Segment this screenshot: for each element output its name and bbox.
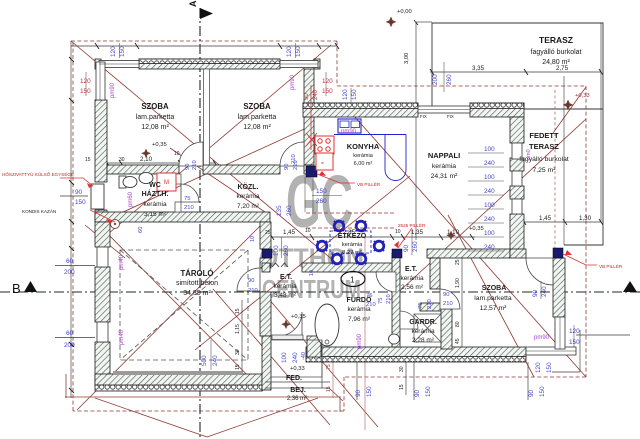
- svg-text:100: 100: [484, 202, 495, 209]
- svg-text:10: 10: [395, 229, 401, 235]
- svg-text:100: 100: [484, 230, 495, 237]
- top-right corner block: [470, 103, 524, 117]
- svg-text:FIX: FIX: [447, 114, 454, 119]
- svg-text:15: 15: [235, 308, 241, 314]
- svg-text:60: 60: [138, 227, 144, 233]
- svg-text:+0,35: +0,35: [152, 142, 167, 148]
- svg-text:kerámia: kerámia: [342, 242, 363, 248]
- svg-text:2525 PILLÉR: 2525 PILLÉR: [398, 222, 426, 228]
- svg-text:lam.parketta: lam.parketta: [136, 114, 175, 121]
- svg-text:90: 90: [75, 189, 83, 196]
- svg-text:12,57 m²: 12,57 m²: [480, 305, 508, 312]
- garage gable: [65, 396, 338, 398]
- svg-text:KÖZL.: KÖZL.: [238, 182, 259, 191]
- right wing bottom wall: [306, 347, 526, 357]
- roof outline dashed: [71, 41, 586, 411]
- svg-text:3,15 m²: 3,15 m²: [144, 211, 167, 218]
- tarolo-ET door: [237, 268, 260, 291]
- svg-text:FEDETT: FEDETT: [529, 131, 559, 140]
- walls: hatched: [95, 59, 565, 391]
- svg-text:SZOBA: SZOBA: [141, 102, 169, 111]
- washing machine red: [157, 173, 176, 191]
- svg-text:150: 150: [119, 46, 126, 57]
- svg-text:pm90: pm90: [357, 333, 363, 349]
- svg-text:90: 90: [284, 164, 290, 170]
- svg-text:7,20 m²: 7,20 m²: [237, 203, 260, 210]
- svg-text:15: 15: [85, 157, 91, 163]
- garage X: [97, 223, 263, 391]
- svg-text:150: 150: [322, 88, 333, 95]
- E.T. top wall: [262, 263, 270, 272]
- garage car cross dashed: [120, 250, 248, 360]
- svg-text:90: 90: [414, 389, 421, 397]
- svg-text:240: 240: [541, 286, 548, 297]
- svg-text:100: 100: [273, 245, 280, 256]
- FED.BEJ left wall: [262, 336, 271, 390]
- bedroom3 top wall: [510, 249, 526, 258]
- kitchen sink unit: [338, 119, 361, 133]
- svg-text:E.T.: E.T.: [280, 274, 292, 281]
- svg-text:E.T.: E.T.: [405, 266, 417, 273]
- svg-text:=: =: [321, 161, 324, 167]
- svg-text:lam.parketta: lam.parketta: [238, 114, 277, 121]
- svg-text:kerámia: kerámia: [143, 201, 167, 208]
- kitchen counter + peninsula: [334, 135, 406, 181]
- star symbols: [142, 17, 573, 329]
- svg-text:pm60: pm60: [128, 191, 134, 207]
- bathroom left corner wall: [307, 336, 321, 357]
- garage left wall: [95, 222, 110, 247]
- svg-text:KONYHA: KONYHA: [347, 142, 380, 151]
- nappali bottom wall: [427, 249, 510, 258]
- left wall bedroom: [95, 100, 107, 182]
- svg-text:150: 150: [546, 362, 553, 373]
- svg-text:simított beton: simított beton: [176, 280, 218, 287]
- svg-text:FED.: FED.: [286, 375, 302, 382]
- misc details: [0, 438, 1, 439]
- WC bottom / KOZL bottom wall: [95, 212, 270, 222]
- svg-text:90: 90: [304, 93, 310, 100]
- svg-text:HŐSZIVATTYÚ KÜLSŐ EGYSÉGE: HŐSZIVATTYÚ KÜLSŐ EGYSÉGE: [2, 171, 74, 177]
- svg-text:30: 30: [235, 349, 241, 355]
- bathtub: [315, 304, 339, 346]
- svg-text:210: 210: [366, 302, 376, 308]
- svg-text:FIX: FIX: [420, 114, 427, 119]
- svg-text:SZOBA: SZOBA: [243, 102, 271, 111]
- svg-text:+0,35: +0,35: [291, 314, 306, 320]
- wc toilet: [119, 173, 153, 189]
- svg-text:150: 150: [316, 188, 327, 195]
- svg-text:-40: -40: [301, 352, 307, 360]
- svg-text:200: 200: [64, 269, 75, 276]
- ET2 door from szoba3: [440, 289, 460, 309]
- right wing diagonals: [390, 119, 586, 300]
- svg-text:VB PILLÉR: VB PILLÉR: [357, 181, 381, 187]
- svg-text:260: 260: [283, 245, 290, 256]
- svg-text:120: 120: [322, 78, 333, 85]
- svg-text:pm40: pm40: [119, 254, 125, 270]
- svg-text:260: 260: [446, 74, 453, 85]
- bedroom3 right wall: [553, 258, 565, 317]
- heat pump unit outside: [91, 184, 104, 209]
- bathroom right wall: [392, 253, 400, 347]
- garage right wall: [260, 222, 271, 249]
- svg-text:kerámia: kerámia: [236, 193, 260, 200]
- svg-text:12,08 m²: 12,08 m²: [141, 124, 169, 131]
- red dims near bed2 wall: [304, 89, 319, 100]
- svg-text:150: 150: [425, 386, 432, 397]
- svg-text:210: 210: [427, 299, 433, 309]
- gardr door: [400, 311, 418, 329]
- svg-text:kerámia: kerámia: [432, 163, 456, 170]
- svg-text:240: 240: [484, 216, 495, 223]
- WC door: [181, 184, 199, 202]
- svg-text:2,85: 2,85: [343, 229, 356, 236]
- svg-text:GARDR.: GARDR.: [409, 319, 437, 326]
- svg-text:90: 90: [248, 278, 254, 284]
- svg-text:120: 120: [110, 46, 117, 57]
- svg-text:210: 210: [386, 294, 392, 304]
- svg-text:1,30: 1,30: [579, 215, 592, 222]
- svg-text:150: 150: [80, 88, 91, 95]
- svg-text:75: 75: [326, 364, 332, 370]
- dim ticks: [105, 20, 603, 240]
- svg-text:200: 200: [432, 74, 439, 85]
- furdo door: [376, 272, 396, 292]
- svg-text:210: 210: [291, 154, 297, 164]
- svg-text:B: B: [12, 281, 21, 296]
- svg-text:VB PILLÉR: VB PILLÉR: [599, 263, 623, 269]
- svg-text:90: 90: [403, 244, 410, 252]
- entry diagonals: [213, 289, 330, 425]
- svg-text:TERASZ: TERASZ: [529, 142, 559, 151]
- blue dimension texts: [64, 46, 580, 397]
- svg-text:WC: WC: [149, 182, 161, 189]
- gardrobe X: [414, 314, 441, 342]
- hip/valley diagonals bedroom wing: [71, 41, 340, 266]
- black dimension texts: [85, 9, 592, 392]
- svg-text:+0,35: +0,35: [469, 226, 484, 232]
- misc details: [305, 177, 313, 212]
- svg-text:60: 60: [66, 258, 74, 265]
- svg-text:pm0: pm0: [526, 149, 532, 160]
- svg-text:90: 90: [528, 389, 535, 397]
- szoba3 terrace door: [526, 258, 553, 285]
- svg-text:120: 120: [286, 46, 293, 57]
- garage door band: [113, 371, 243, 375]
- svg-text:260: 260: [412, 241, 419, 252]
- svg-text:2,75: 2,75: [556, 65, 569, 72]
- svg-text:75: 75: [378, 298, 384, 304]
- roof plan red linework: [65, 41, 586, 437]
- svg-text:25: 25: [265, 230, 271, 236]
- svg-text:TERASZ: TERASZ: [539, 35, 573, 45]
- svg-text:240: 240: [292, 352, 299, 363]
- lamp ellipse with 1: [341, 272, 365, 287]
- svg-text:120: 120: [569, 328, 580, 335]
- svg-text:pm90: pm90: [110, 82, 116, 98]
- svg-text:kerámia: kerámia: [353, 153, 374, 159]
- nappali right wall segments: [510, 158, 524, 171]
- svg-text:30: 30: [399, 366, 405, 372]
- svg-text:M: M: [164, 180, 169, 186]
- svg-text:120: 120: [342, 89, 349, 100]
- svg-text:7,25 m²: 7,25 m²: [532, 167, 556, 174]
- bedrooms bottom wall: [107, 165, 179, 174]
- door arcs: [179, 142, 553, 336]
- svg-text:8,27 m²: 8,27 m²: [342, 250, 362, 256]
- svg-text:240: 240: [484, 160, 495, 167]
- svg-text:260: 260: [286, 205, 293, 216]
- corners of top wall: [95, 59, 101, 69]
- room labels: [136, 35, 582, 402]
- svg-text:240: 240: [484, 244, 495, 251]
- svg-text:pm90: pm90: [534, 335, 550, 341]
- entry door arc: [278, 312, 302, 336]
- svg-text:12,08 m²: 12,08 m²: [243, 124, 271, 131]
- entry threshold + porch steps: [265, 335, 330, 388]
- svg-text:SZOBA: SZOBA: [482, 285, 507, 292]
- svg-text:2,28 m²: 2,28 m²: [412, 337, 435, 344]
- watermark: [259, 160, 364, 304]
- svg-text:90: 90: [443, 292, 449, 298]
- bed2 door: [280, 142, 304, 166]
- GARDR right wall: [441, 309, 452, 349]
- dining table + chairs: [317, 221, 384, 264]
- bath sink: [389, 334, 400, 344]
- svg-text:75: 75: [366, 293, 372, 299]
- svg-text:210: 210: [192, 160, 198, 170]
- windows (thin triple lines): [96, 61, 576, 356]
- svg-text:10: 10: [250, 236, 256, 242]
- kondis kazan circle: [111, 220, 120, 229]
- bedroom wing top wall: [139, 59, 280, 69]
- bedroom divider: [204, 69, 210, 166]
- kitchen top wall: [303, 103, 418, 117]
- level markers: [152, 93, 590, 372]
- svg-text:150: 150: [539, 386, 546, 397]
- bed1 door: [179, 142, 203, 166]
- garage bottom wall: [95, 374, 262, 386]
- svg-text:3,48 m²: 3,48 m²: [274, 292, 297, 299]
- svg-text:+0,33: +0,33: [575, 93, 590, 99]
- WC right divider: [175, 174, 181, 184]
- svg-text:150: 150: [569, 339, 580, 346]
- svg-text:24,31 m²: 24,31 m²: [431, 173, 459, 180]
- svg-text:30: 30: [119, 157, 125, 163]
- svg-text:2,36 m²: 2,36 m²: [287, 396, 307, 402]
- svg-text:10: 10: [305, 228, 311, 234]
- svg-text:pm40: pm40: [119, 329, 125, 345]
- ET2/GARDR divider: [420, 303, 441, 311]
- svg-text:100: 100: [484, 174, 495, 181]
- svg-text:TÁROLÓ: TÁROLÓ: [181, 269, 214, 278]
- svg-text:240: 240: [484, 188, 495, 195]
- magenta pm labels: [110, 74, 550, 349]
- svg-text:A: A: [188, 0, 198, 7]
- kitchen stove: [315, 136, 334, 170]
- svg-text:10: 10: [309, 270, 315, 276]
- svg-text:+0,00: +0,00: [397, 9, 412, 15]
- svg-text:210: 210: [248, 288, 258, 294]
- svg-text:210: 210: [184, 205, 194, 211]
- svg-text:1: 1: [350, 276, 355, 285]
- svg-text:260: 260: [316, 198, 327, 205]
- svg-text:1,35: 1,35: [411, 229, 424, 236]
- svg-text:2,56 m²: 2,56 m²: [401, 284, 424, 291]
- svg-text:25: 25: [455, 259, 461, 265]
- svg-text:BEJ.: BEJ.: [290, 387, 306, 394]
- svg-text:HÁZT.H.: HÁZT.H.: [142, 189, 169, 198]
- svg-text:kerámia: kerámia: [273, 283, 297, 290]
- svg-text:75: 75: [418, 303, 424, 309]
- svg-text:KONDIS KAZÁN: KONDIS KAZÁN: [22, 208, 56, 214]
- svg-text:1,90: 1,90: [455, 278, 461, 288]
- etkezo dashed opening: [306, 213, 396, 228]
- svg-text:1,45: 1,45: [283, 229, 296, 236]
- svg-text:15: 15: [235, 364, 241, 370]
- svg-text:120: 120: [80, 78, 91, 85]
- svg-text:3,35: 3,35: [472, 65, 485, 72]
- svg-text:3,00: 3,00: [404, 53, 410, 64]
- svg-text:90: 90: [185, 164, 191, 170]
- bed2 right wall / kitchen left: [304, 69, 314, 165]
- svg-text:kerámia: kerámia: [411, 328, 435, 335]
- svg-text:100: 100: [484, 146, 495, 153]
- svg-text:NAPPALI: NAPPALI: [428, 151, 460, 160]
- svg-text:150: 150: [295, 46, 302, 57]
- svg-text:90: 90: [532, 289, 539, 297]
- svg-text:210: 210: [443, 301, 453, 307]
- svg-text:1,45: 1,45: [539, 215, 552, 222]
- svg-text:90: 90: [355, 389, 362, 397]
- svg-text:80: 80: [455, 321, 461, 327]
- svg-text:150: 150: [75, 199, 86, 206]
- svg-text:6,00 m²: 6,00 m²: [354, 161, 373, 167]
- svg-text:45: 45: [455, 338, 461, 344]
- svg-text:fagyálló burkolat: fagyálló burkolat: [531, 49, 582, 56]
- svg-text:34,35 m²: 34,35 m²: [183, 290, 211, 297]
- svg-text:75: 75: [184, 196, 190, 202]
- svg-text:500: 500: [201, 355, 208, 366]
- svg-text:240: 240: [212, 355, 219, 366]
- svg-text:150: 150: [351, 89, 358, 100]
- svg-text:+0,33: +0,33: [290, 366, 305, 372]
- terrace outline: [432, 23, 603, 245]
- svg-text:10: 10: [174, 151, 180, 157]
- svg-text:15: 15: [326, 386, 332, 392]
- ET2 right wall: [430, 258, 440, 289]
- svg-text:135: 135: [276, 205, 283, 216]
- svg-text:150: 150: [366, 386, 373, 397]
- svg-text:1,15: 1,15: [235, 324, 241, 334]
- pillars: [306, 166, 317, 177]
- svg-text:120: 120: [535, 362, 542, 373]
- north arrow A: [200, 8, 213, 19]
- svg-text:kerámia: kerámia: [400, 275, 424, 282]
- svg-text:pm90: pm90: [290, 74, 296, 90]
- svg-text:240: 240: [313, 89, 319, 100]
- svg-text:lam.parketta: lam.parketta: [474, 295, 512, 302]
- svg-text:100: 100: [281, 352, 288, 363]
- svg-text:7,96 m²: 7,96 m²: [348, 316, 371, 323]
- svg-text:15: 15: [399, 384, 405, 390]
- svg-text:60: 60: [66, 330, 74, 337]
